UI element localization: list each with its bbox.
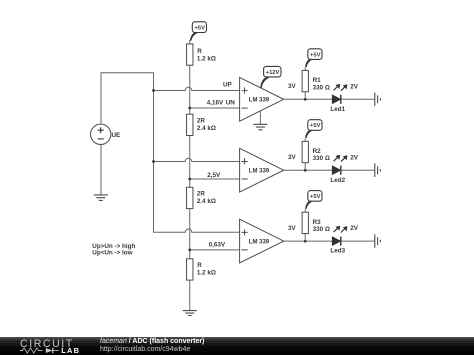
wire UP to comp1 plus input (hop over ladder) [154,87,240,90]
wire ladder R bottom to 2R top (through node tap1) [189,65,191,114]
ground (right of Led3, rotated) [375,234,381,248]
svg-text:+5V: +5V [310,52,321,58]
svg-text:3V: 3V [288,83,297,90]
wire comparator U2 output to LED [284,169,333,171]
resistor R1 330 ohm pull-up [302,70,308,91]
svg-text:UN: UN [226,100,236,107]
wire R3 bottom lead [304,234,306,242]
node A (bus tap row1) [152,89,155,92]
svg-text:+5V: +5V [310,123,321,129]
svg-text:3V: 3V [288,154,297,161]
LED Led2 [332,155,347,175]
node B (bus tap row2) [152,160,155,163]
ground (below UE source) [94,195,108,201]
svg-text:LM 339: LM 339 [249,98,270,104]
svg-text:330 Ω: 330 Ω [313,155,330,162]
resistor R (top, 1.2k) [187,44,193,65]
wire comparator U1 output to LED [284,98,333,100]
svg-text:R3: R3 [313,219,322,226]
svg-text:R2: R2 [313,148,322,155]
svg-text:Led3: Led3 [330,248,345,255]
resistor R3 330 ohm pull-up [302,212,308,233]
wire R2 top lead [304,138,306,141]
svg-text:2.4 kΩ: 2.4 kΩ [197,125,216,132]
resistor 2R (upper, 2.4k) [187,114,193,135]
power label +5V (R1 pull-up) [305,49,322,67]
node tap3 0.63V [188,249,191,252]
ground (right of Led2, rotated) [375,163,381,177]
wire R1 top lead [304,67,306,70]
resistor R2 330 ohm pull-up [302,141,308,162]
wire ladder +5V to resistor R top [189,40,191,44]
power label +12V (comparator supply pin) [260,66,281,87]
svg-text:Led1: Led1 [330,106,345,113]
svg-text:1.2 kΩ: 1.2 kΩ [197,269,216,276]
node output junction row 1 [304,98,307,101]
svg-text:UE: UE [112,132,121,139]
svg-text:2,5V: 2,5V [207,172,221,179]
wire R2 bottom lead [304,163,306,171]
ground (bottom of ladder) [183,311,197,316]
svg-text:Led2: Led2 [330,177,345,184]
svg-text:Up<Un -> low: Up<Un -> low [92,250,132,257]
wire R3 top lead [304,209,306,212]
svg-text:2.4 kΩ: 2.4 kΩ [197,198,216,205]
svg-text:UP: UP [223,81,232,88]
svg-text:+5V: +5V [195,25,206,31]
wire ladder 2R bottom to R top (through node tap3) [189,209,191,259]
svg-text:3V: 3V [288,225,297,232]
svg-text:330 Ω: 330 Ω [313,226,330,233]
wire tap1 to comp1 minus input [190,107,240,109]
power label +5V (R2 pull-up) [305,120,322,138]
voltage source UE [91,124,111,144]
wire to comp2 plus input (hop over ladder) [154,158,240,161]
node tap2 2.5V [188,178,191,181]
wire ladder 2R bottom to 2R top (through node tap2) [189,136,191,188]
svg-text:1.2 kΩ: 1.2 kΩ [197,55,216,62]
wire LED to ground [341,240,375,242]
op-amp U3 comparator LM 339 [240,219,284,263]
LED Led3 [332,226,347,246]
op-amp U2 comparator LM 339 [240,148,284,192]
resistor 2R (lower, 2.4k) [187,187,193,208]
node output junction row 2 [304,169,307,172]
svg-text:+5V: +5V [310,194,321,200]
wire LED to ground [341,169,375,171]
wire UE bus vertical with corner to comp3 plus input (hop over ladder) [154,73,240,233]
svg-text:2R: 2R [197,118,206,125]
LED Led1 [332,84,347,104]
wire source top to bus [101,73,154,124]
op-amp U1 comparator LM 339 [240,77,284,121]
power label +5V (top of ladder) [190,22,207,41]
svg-text:R: R [197,262,202,269]
node tap1 4.16V [188,107,191,110]
wire LED to ground [341,98,375,100]
wire comparator U3 output to LED [284,240,333,242]
svg-text:2V: 2V [350,225,359,232]
svg-text:2V: 2V [350,154,359,161]
ground (right of Led1, rotated) [375,93,381,107]
wire source bottom to ground [100,145,102,195]
node output junction row 3 [304,240,307,243]
ground (comparator ground pin) [253,111,267,130]
power label +5V (R3 pull-up) [305,191,322,209]
wire R1 bottom lead [304,92,306,100]
wire ladder R bottom to ground [189,280,191,310]
svg-text:2R: 2R [197,191,206,198]
svg-text:4,16V: 4,16V [207,100,224,107]
resistor R (bottom, 1.2k) [187,259,193,280]
svg-text:2V: 2V [350,83,359,90]
svg-text:R1: R1 [313,77,322,84]
svg-text:0,63V: 0,63V [209,242,226,249]
wire tap2 to comp2 minus input [190,178,240,180]
svg-text:LM 339: LM 339 [249,240,270,246]
svg-text:+12V: +12V [266,70,280,76]
svg-text:LM 339: LM 339 [249,169,270,175]
wire tap3 to comp3 minus input [190,249,240,251]
svg-text:R: R [197,48,202,55]
svg-text:330 Ω: 330 Ω [313,84,330,91]
